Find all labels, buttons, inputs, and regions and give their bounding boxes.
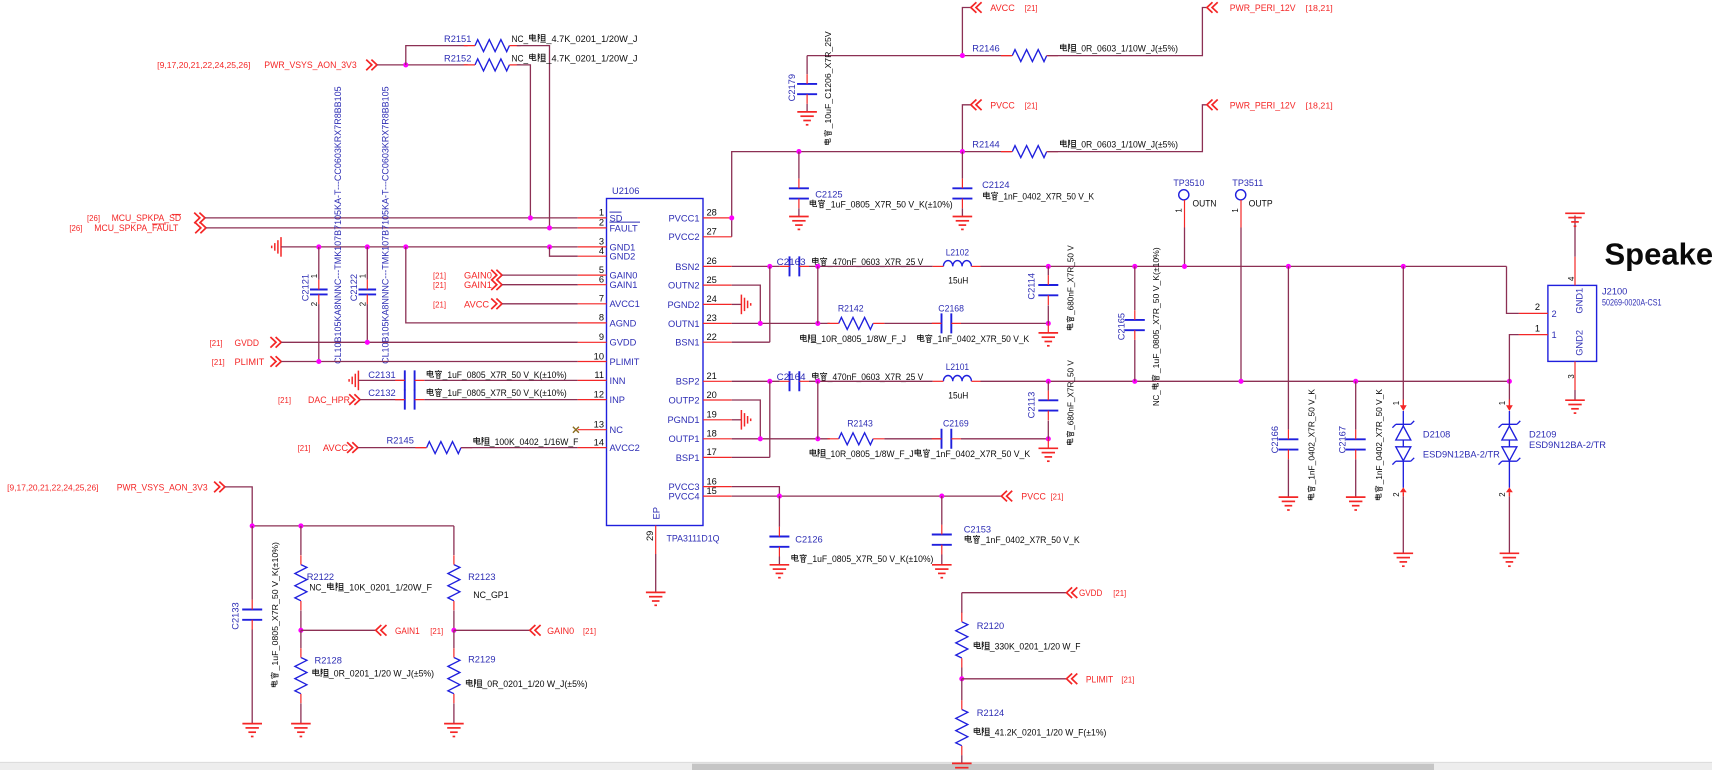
resistor R2145 [415,442,472,454]
svg-text:TP3510: TP3510 [1173,178,1204,188]
scrollbar thumb [692,764,1434,770]
svg-text:C2114: C2114 [1026,273,1036,300]
junction C2165 bottom [1132,379,1137,384]
svg-text:1: 1 [1231,208,1240,212]
svg-text:AVCC1: AVCC1 [610,299,640,309]
wire DAC_HPR to C2132 [360,399,405,401]
wire OUTP to J2100 pin1 [1509,335,1519,382]
wire pin22 BSN1 [732,341,770,343]
svg-text:OUTP: OUTP [1249,198,1273,208]
svg-text:R2129: R2129 [468,654,495,664]
svg-text:_0R_0201_1/20 W_J(±5%): _0R_0201_1/20 W_J(±5%) [328,669,434,679]
svg-text:24: 24 [707,294,717,304]
resistor R2143 [827,433,884,445]
wire R2123 bottom lead [453,611,455,631]
pin 27 PVCC2 stub [703,236,732,238]
svg-text:1: 1 [1498,401,1507,405]
value R2144 0R [1060,140,1178,150]
svg-text:C2122: C2122 [349,274,359,301]
wire PLIMIT to pin 10 [281,361,578,363]
pin 12 INP stub [578,399,607,401]
wire GAIN1 to pin 6 [502,284,578,286]
wire C2121 top lead [318,247,320,280]
svg-text:C2124: C2124 [982,180,1009,190]
inductor L2102 [943,261,971,267]
wire C2122 bottom lead [366,304,368,342]
svg-text:1: 1 [1174,208,1183,212]
wire J2100 pin4 to ground [1574,216,1576,257]
ground C2124 [953,217,973,230]
value R2129 0R [466,679,587,689]
junction AGND branch [403,244,408,249]
value R2152 NC_4.7K [512,53,638,63]
pin 20 OUTP2 stub [703,399,732,401]
svg-text:_1nF_0402_X7R_50 V_K: _1nF_0402_X7R_50 V_K [980,535,1081,545]
capacitor C2167 [1346,430,1366,460]
wire BSN2-BSN1 vertical [769,266,771,342]
wire C2163 to L2102 [809,265,933,267]
svg-text:21: 21 [707,371,717,381]
svg-text:PLIMIT: PLIMIT [1086,674,1114,684]
svg-text:[21]: [21] [278,396,291,405]
wire pin20 OUTP2 down [732,400,761,439]
ground R2129 [444,724,464,737]
wire C2168 to snubber gnd [961,322,1048,324]
wire R2151 to FAULT line [517,46,550,228]
junction PVCC drop [960,149,965,154]
wire C2122 top lead [366,247,368,280]
port chevron MCU_SPKPA_FAULT [195,223,206,234]
svg-text:PLIMIT: PLIMIT [610,357,640,367]
wire R2122 top lead [300,526,302,555]
svg-text:GAIN1: GAIN1 [395,626,420,636]
ground snubber row1 [1039,333,1059,346]
svg-text:C2167: C2167 [1338,426,1348,453]
svg-text:GVDD: GVDD [610,338,637,348]
svg-text:2: 2 [1552,309,1557,319]
svg-text:_1nF_0402_X7R_50 V_K: _1nF_0402_X7R_50 V_K [1374,389,1384,486]
junction C2133 top [250,523,255,528]
svg-text:BSP1: BSP1 [676,453,700,463]
test point TP3510 [1179,190,1189,200]
svg-text:R2123: R2123 [468,572,495,582]
junction C2167 branch [1353,379,1358,384]
svg-text:_1uF_0805_X7R_50 V_K(±10%): _1uF_0805_X7R_50 V_K(±10%) [825,200,953,210]
svg-text:[21]: [21] [433,272,446,281]
junction C2164 to OUTP1 [815,436,820,441]
port chevron PWR_VSYS bottom [214,482,225,493]
junction C2113 top [1046,379,1051,384]
svg-text:23: 23 [707,313,717,323]
wire C2169 to snubber gnd [961,438,1048,440]
svg-text:28: 28 [707,208,717,218]
value R2122 NC 10K [309,583,432,593]
wire C2113 top lead [1047,381,1049,390]
resistor R2124 [956,700,968,755]
svg-text:C2166: C2166 [1270,426,1280,453]
svg-text:1: 1 [1552,330,1557,340]
value R2120 330K [974,641,1081,651]
svg-text:5: 5 [599,265,604,275]
capacitor C2133 [242,600,262,630]
capacitor C2121 [310,280,328,304]
pin 5 GAIN0 stub [578,274,607,276]
wire R2152 to SD line [517,65,531,218]
wire R2145 to pin 14 [461,447,578,449]
capacitor C2153 [932,525,952,555]
wire R2123 top lead [453,526,455,555]
port chevron MCU_SPKPA_SD [194,213,205,224]
wire R2143 to C2169 [884,438,941,440]
svg-text:GAIN1: GAIN1 [610,280,638,290]
svg-text:NC_: NC_ [1151,390,1161,406]
svg-text:[21]: [21] [1051,493,1064,502]
pin 23 OUTN1 stub [703,322,732,324]
svg-text:11: 11 [594,370,604,380]
wire C2124 top lead [961,152,963,179]
scrollbar track [0,762,1712,770]
value C2169 1nF [915,449,1031,459]
svg-text:GAIN0: GAIN0 [464,271,492,281]
wire C2126 bottom lead [778,557,780,565]
resistor R2142 [827,317,884,329]
pin 10 PLIMIT stub [578,361,607,363]
svg-text:AVCC: AVCC [323,443,348,453]
wire C2153 bottom lead [941,555,943,565]
svg-text:[18,21]: [18,21] [1306,4,1333,13]
svg-text:NC_: NC_ [309,583,326,593]
svg-text:INN: INN [610,376,626,386]
junction pin 28 [729,215,734,220]
wire AVCC rail left [807,55,1011,57]
capacitor C2114 [1038,275,1058,305]
junction GND2 branch [547,244,552,249]
svg-text:R2122: R2122 [307,572,334,582]
svg-text:19: 19 [707,410,717,420]
wire C2114 top lead [1047,266,1049,275]
pin 1 SD stub [578,217,607,219]
svg-text:18: 18 [707,429,717,439]
wire C2166 bottom lead [1287,459,1289,497]
svg-text:R2143: R2143 [847,418,873,428]
wire R2124 top lead [961,679,963,701]
svg-text:R2146: R2146 [972,44,999,54]
wire R2129 bottom lead [453,703,455,723]
pin 26 BSN2 stub [703,265,732,267]
wire R2142 to C2168 [884,322,941,324]
resistor R2144 [1001,146,1058,158]
capacitor C2113 [1038,391,1058,421]
op-amp/amplifier IC U2106 TPA3111D1Q body [607,199,704,526]
svg-text:R2152: R2152 [444,53,471,63]
svg-text:[18,21]: [18,21] [1306,101,1333,110]
svg-text:1: 1 [1392,401,1401,405]
wire TP3511 to OUTP [1240,228,1242,382]
capacitor C2124 [952,179,972,209]
wire C2163 right vertical [817,266,819,323]
junction C2114 top [1046,264,1051,269]
wire GVDD to pin 9 [281,341,578,343]
wire AVCC to R2145 [358,447,427,449]
port chevron GAIN1 bottom [376,625,387,636]
ground PGND2 [741,295,750,315]
junction D2108 branch [1401,264,1406,269]
wire C2167 drop [1355,381,1357,429]
value R2124 41.2K [974,727,1106,737]
svg-text:[21]: [21] [1121,675,1134,684]
svg-text:15uH: 15uH [948,391,968,401]
port chevron PLIMIT right [1067,674,1078,685]
svg-text:OUTN: OUTN [1193,198,1217,208]
ground C2126 [770,565,790,578]
svg-text:3: 3 [1567,374,1576,378]
svg-text:BSN1: BSN1 [675,338,699,348]
diode D2109 ESD [1508,381,1510,399]
svg-text:_470nF_0603_X7R_25 V: _470nF_0603_X7R_25 V [827,372,924,382]
value R2128 0R [313,669,434,679]
port chevron GAIN0 bottom [530,625,541,636]
junction C2153 [939,494,944,499]
wire OUTP main [981,380,1510,382]
pin 19 PGND1 stub [703,419,732,421]
junction D2109/J2100 node [1507,379,1512,384]
wire BSP2-BSP1 vertical [769,381,771,457]
wire C2125 bottom lead [798,208,800,216]
svg-text:AVCC2: AVCC2 [610,443,640,453]
pin 18 OUTP1 stub [703,438,732,440]
capacitor C2125 [789,179,809,209]
wire C2164 right vertical [817,381,819,439]
port chevron GVDD [270,337,281,348]
pin 17 BSP1 stub [703,456,732,458]
wire C2179 bottom lead [806,104,808,112]
svg-text:6: 6 [599,275,604,285]
svg-text:[21]: [21] [210,339,223,348]
wire pin21 BSP2 to C2164 [732,380,780,382]
port chevron GAIN0 [491,270,502,281]
svg-text:PVCC: PVCC [1021,492,1046,502]
junction AVCC drop [960,53,965,58]
svg-text:22: 22 [707,332,717,342]
svg-text:OUTP2: OUTP2 [669,395,700,405]
wire R2144 to PWR_PERI_12V [1048,105,1207,152]
wire GAIN1 to port [301,629,376,631]
svg-text:GAIN0: GAIN0 [547,626,574,636]
svg-text:_4.7K_0201_1/20W_J: _4.7K_0201_1/20W_J [545,53,637,63]
svg-text:INP: INP [610,395,626,405]
port chevron PLIMIT [270,356,281,367]
junction snubber node [1046,321,1051,326]
resistor R2129 [448,648,460,703]
svg-text:_330K_0201_1/20 W_F: _330K_0201_1/20 W_F [989,641,1081,651]
svg-text:C2113: C2113 [1026,392,1036,419]
junction GAIN0 node [451,628,456,633]
wire R2128 bottom lead [300,703,302,723]
wire pin16 PVCC3 down [732,487,780,497]
svg-text:_1uF_0805_X7R_50 V_K(±10%): _1uF_0805_X7R_50 V_K(±10%) [270,542,280,672]
pin 21 BSP2 stub [703,380,732,382]
ground C2166 [1279,497,1299,510]
resistor R2152 [464,59,521,71]
capacitor C2166 [1278,430,1298,460]
svg-text:_41.2K_0201_1/20 W_F(±1%): _41.2K_0201_1/20 W_F(±1%) [989,727,1106,737]
wire pin24 PGND2 to ground [732,303,742,305]
value C2125 1uF [810,200,953,210]
svg-text:BSN2: BSN2 [675,262,699,272]
svg-text:NC_: NC_ [512,34,529,44]
svg-text:15uH: 15uH [948,276,968,286]
svg-text:PWR_VSYS_AON_3V3: PWR_VSYS_AON_3V3 [117,482,208,492]
ground C2131 left [349,371,358,391]
svg-text:PGND1: PGND1 [667,415,699,425]
junction C2163 right [815,264,820,269]
wire C2133 top lead [251,526,253,600]
junction GAIN1 node [298,628,303,633]
capacitor C2164 [780,371,809,391]
svg-text:GAIN1: GAIN1 [464,280,492,290]
svg-text:L2101: L2101 [946,362,969,372]
svg-text:_0R_0603_1/10W_J(±5%): _0R_0603_1/10W_J(±5%) [1076,140,1178,150]
diode D2108 ESD [1402,266,1404,399]
wire C2165 top lead [1134,266,1136,310]
svg-text:C2132: C2132 [368,388,395,398]
svg-text:25: 25 [707,275,717,285]
svg-text:PVCC2: PVCC2 [668,232,699,242]
svg-text:_1nF_0402_X7R_50 V_K: _1nF_0402_X7R_50 V_K [998,192,1095,202]
capacitor C2122 [359,280,377,304]
svg-text:C2133: C2133 [231,602,241,629]
port chevron PVCC top [971,100,982,111]
value C2153 1nF [965,535,1080,545]
pin 3 J2100 stub [1574,361,1576,390]
svg-text:EP: EP [652,507,662,519]
svg-text:GVDD: GVDD [1079,588,1103,598]
value C2126 1uF [792,554,934,564]
wire PVCC port drop [962,105,970,152]
wire C2124 bottom lead [961,208,963,216]
svg-text:[21]: [21] [433,281,446,290]
pin 7 AVCC1 stub [578,303,607,305]
port chevron AVCC top [971,2,982,13]
junction R2122 top [298,523,303,528]
part string C2121 [333,86,343,364]
svg-text:9: 9 [599,332,604,342]
svg-text:_100K_0402_1/16W_F: _100K_0402_1/16W_F [489,437,579,447]
value C2132 1uF [427,388,567,398]
svg-text:17: 17 [707,447,717,457]
svg-text:C2163: C2163 [777,257,806,267]
svg-text:_1uF_0805_X7R_50 V_K(±10%): _1uF_0805_X7R_50 V_K(±10%) [442,370,567,380]
value R2151 NC_4.7K [512,34,638,44]
wire to pin 4 GND2 [550,247,578,256]
ground EP [646,592,666,605]
svg-text:C2153: C2153 [964,525,991,535]
svg-text:PVCC1: PVCC1 [668,213,699,223]
ground C2133 [242,724,262,737]
capacitor C2126 [769,527,789,557]
svg-text:_10R_0805_1/8W_F_J: _10R_0805_1/8W_F_J [825,449,914,459]
wire PVCC4 rail [732,495,1002,497]
svg-text:R2151: R2151 [444,34,471,44]
value C2133 1uF [270,542,280,687]
svg-text:[21]: [21] [1025,101,1038,110]
wire gnd to C2131 [358,379,404,381]
junction TP3511 [1238,379,1243,384]
svg-text:_1nF_0402_X7R_50 V_K: _1nF_0402_X7R_50 V_K [932,334,1030,344]
junction C2165 top [1132,264,1137,269]
wire C2132 to pin 12 INP [424,399,578,401]
wire pin19 PGND1 to ground [732,419,742,421]
junction C2122 bottom [365,340,370,345]
svg-text:2: 2 [1535,302,1540,312]
junction TP3510 [1182,264,1187,269]
svg-text:Speaker: Speaker [1605,237,1712,272]
svg-text:GVDD: GVDD [235,338,260,348]
port chevron PWR_PERI_12V top [1207,2,1218,13]
wire pin23 OUTN1 [732,322,830,324]
test point TP3511 [1236,190,1246,200]
svg-text:_680nF_X7R_50 V: _680nF_X7R_50 V [1066,360,1076,431]
svg-text:10: 10 [594,351,604,361]
svg-text:[9,17,20,21,22,24,25,26]: [9,17,20,21,22,24,25,26] [157,61,250,70]
svg-text:R2120: R2120 [977,621,1004,631]
svg-text:ESD9N12BA-2/TR: ESD9N12BA-2/TR [1529,440,1606,450]
pin 15 PVCC4 stub [703,495,732,497]
svg-text:_10uF_C1206_X7R_25V: _10uF_C1206_X7R_25V [823,31,833,130]
svg-text:[21]: [21] [212,358,225,367]
capacitor C2132 [395,390,424,410]
wire AVCC to pin 7 [502,303,578,305]
svg-text:_680nF_X7R_50 V: _680nF_X7R_50 V [1066,245,1076,316]
svg-text:C2164: C2164 [777,372,806,382]
svg-text:PVCC4: PVCC4 [668,492,699,502]
svg-text:CL10B105KA8NNNC---TMK107B7105K: CL10B105KA8NNNC---TMK107B7105KA-T---CC06… [380,86,390,364]
svg-text:_1nF_0402_X7R_50 V_K: _1nF_0402_X7R_50 V_K [1307,389,1317,486]
svg-text:1: 1 [359,274,368,278]
svg-text:C2165: C2165 [1117,313,1127,340]
junction BSN tie [767,264,772,269]
svg-text:4: 4 [1567,276,1576,281]
wire EP to ground [655,554,657,592]
svg-text:1: 1 [310,274,319,278]
pin 24 PGND2 stub [703,303,732,305]
pin 8 AGND stub [578,322,607,324]
svg-text:OUTN1: OUTN1 [668,319,700,329]
svg-text:13: 13 [594,420,604,430]
wire PWR_VSYS entry [225,487,252,526]
junction OUTP2 join [758,436,763,441]
wire PVCC rail from pin28/27 riser [732,152,1012,237]
wire AVCC port drop [962,8,970,56]
wire C2165 bottom lead [1134,340,1136,381]
svg-text:TPA3111D1Q: TPA3111D1Q [667,534,720,544]
pin 6 GAIN1 stub [578,284,607,286]
svg-text:[21]: [21] [583,627,596,636]
svg-text:R2145: R2145 [387,436,414,446]
svg-text:2: 2 [1392,492,1401,496]
svg-text:PVCC: PVCC [990,100,1015,110]
resistor R2128 [295,648,307,703]
port chevron AVCC pin7 [491,299,502,310]
wire C2179 top lead [806,56,808,75]
value C2124 1nF [983,192,1094,202]
capacitor C2179 [797,74,817,104]
junction OUTN2 join [758,321,763,326]
junction SD/R2152 [528,215,533,220]
ground R2128 [291,724,311,737]
svg-text:[21]: [21] [1113,589,1126,598]
svg-text:GAIN0: GAIN0 [610,271,638,281]
